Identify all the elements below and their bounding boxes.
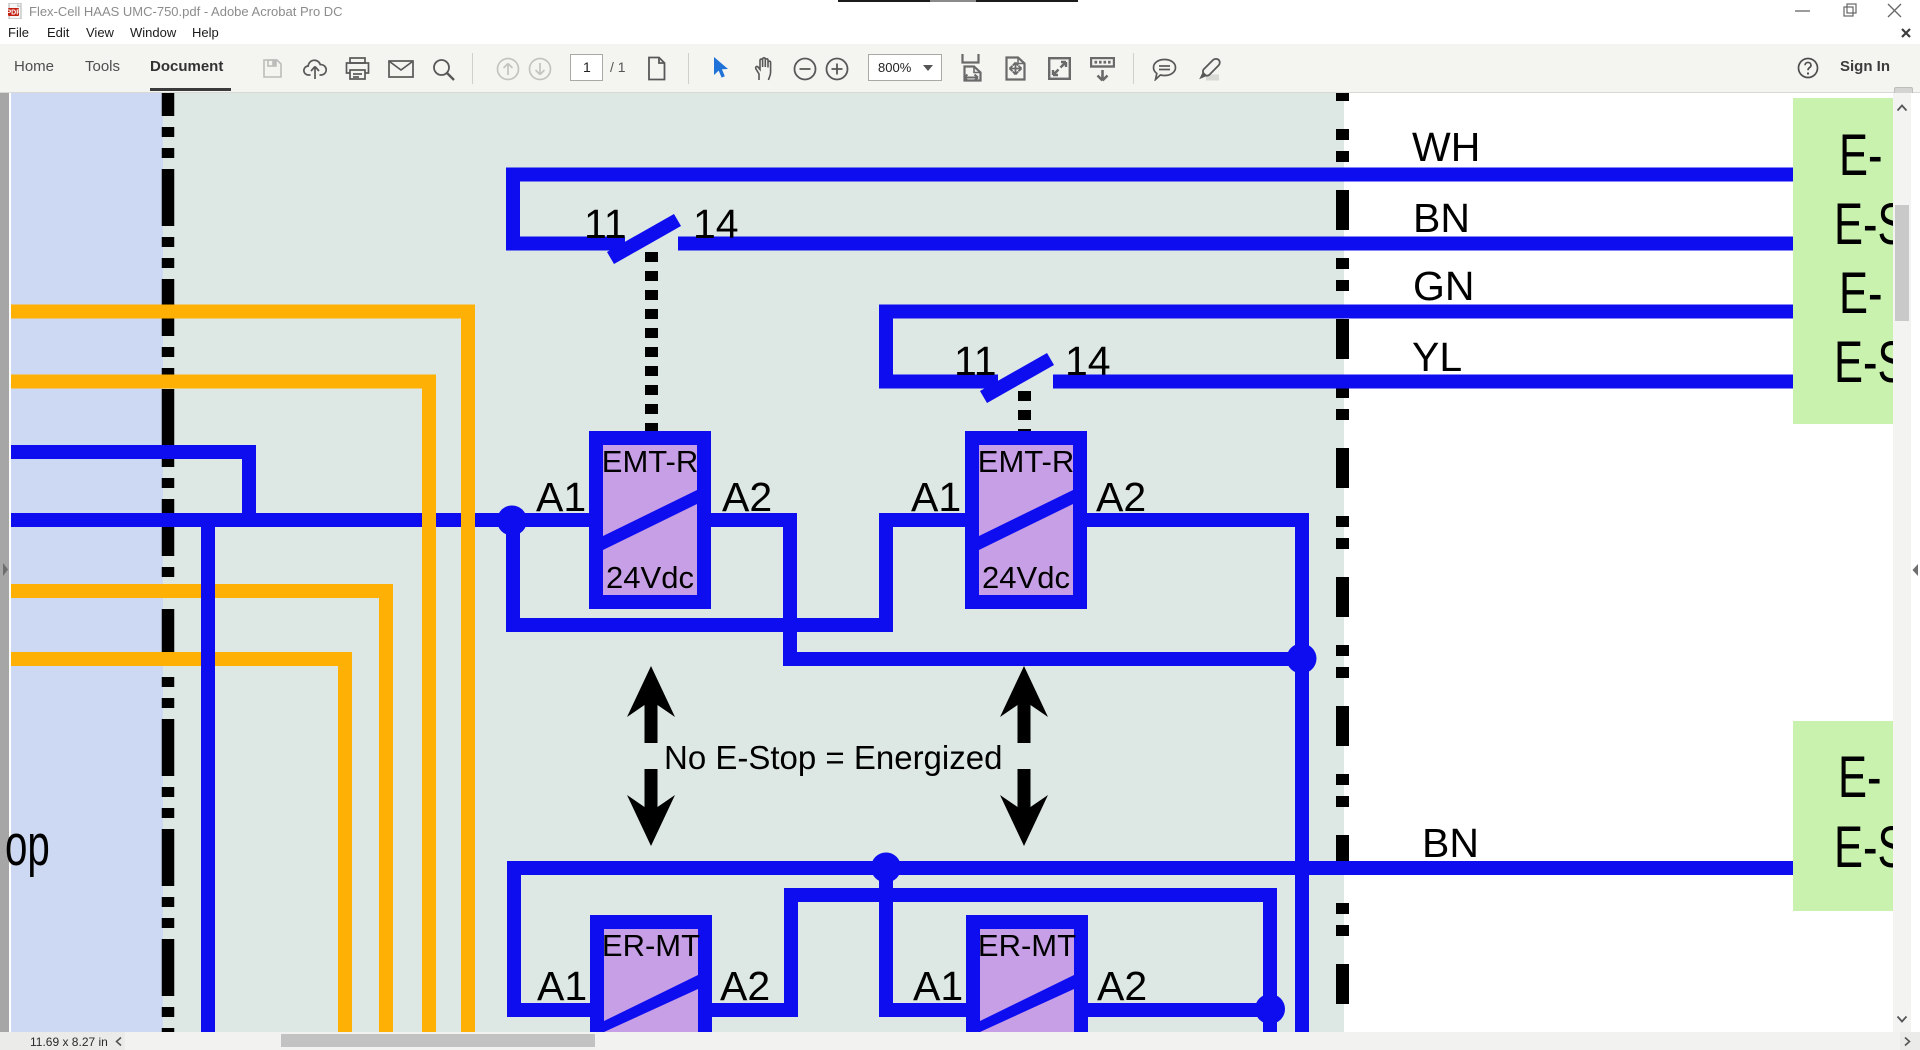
svg-text:24Vdc: 24Vdc	[606, 560, 694, 595]
email	[388, 60, 414, 78]
svg-text:EMT-R: EMT-R	[602, 444, 698, 479]
lower loop mid vertical	[784, 888, 798, 1017]
main rail segment D	[1086, 513, 1309, 527]
help	[1797, 57, 1819, 79]
svg-text:E-: E-	[1839, 123, 1882, 187]
svg-text:A2: A2	[720, 963, 770, 1009]
junction node rail-left	[497, 506, 527, 536]
orange wire 2 vertical	[422, 375, 436, 1033]
fit page icon	[1005, 56, 1026, 81]
dashed boundary line left	[162, 93, 175, 1032]
svg-text:PDF: PDF	[8, 10, 21, 17]
svg-text:E-: E-	[1839, 261, 1882, 325]
svg-text:A1: A1	[537, 963, 587, 1009]
svg-text:op: op	[5, 811, 50, 877]
green terminal box E-STOP top	[1793, 98, 1893, 424]
menu bar	[0, 22, 1920, 44]
relay EMT-R 2 body	[965, 431, 1087, 609]
svg-text:BN: BN	[1422, 820, 1479, 866]
left panel toggle arrow	[3, 563, 8, 576]
green terminal box E-STOP bottom	[1793, 721, 1893, 911]
prev page (disabled)	[496, 57, 520, 81]
orange wire 4 horizontal	[11, 652, 352, 666]
orange wire 3 vertical	[379, 584, 393, 1032]
dotted actuator link right	[1018, 391, 1031, 431]
page icon	[646, 56, 667, 81]
wire WH top	[506, 168, 1793, 182]
svg-text:BN: BN	[1413, 195, 1470, 241]
svg-text:11: 11	[584, 201, 627, 247]
main right vertical	[1295, 513, 1309, 1032]
orange wire 4 vertical	[338, 652, 352, 1032]
green box bottom labels	[1834, 745, 1906, 879]
search	[431, 57, 456, 82]
svg-text:ER-MT: ER-MT	[978, 928, 1076, 963]
next page (disabled)	[528, 57, 552, 81]
comment icon	[1152, 58, 1177, 81]
page number box	[570, 54, 603, 81]
dotted actuator link left	[645, 252, 658, 431]
top edge line of background window	[838, 0, 1078, 2]
upper feed wire left	[11, 445, 256, 459]
svg-text:11: 11	[954, 338, 997, 384]
collapse toolbar button	[1894, 87, 1913, 100]
svg-text:WH: WH	[1412, 124, 1480, 170]
green box top labels	[1834, 123, 1906, 394]
svg-text:A2: A2	[722, 474, 772, 520]
lower return bus top	[784, 888, 1276, 902]
svg-text:14: 14	[1065, 338, 1111, 384]
junction node lower right	[1255, 994, 1285, 1024]
right panel toggle arrow	[1911, 563, 1920, 577]
drop from lower junction	[879, 867, 893, 1017]
ER relay2 A1 wire	[892, 1003, 966, 1017]
contact blade 11-14 (right)	[980, 353, 1054, 403]
ER relay2 A2 wire	[1088, 1003, 1270, 1017]
annotation arrow pair left	[627, 666, 675, 846]
svg-text:A2: A2	[1097, 963, 1147, 1009]
left lavender panel	[11, 93, 163, 1032]
relay ER-MT 2 body	[966, 915, 1088, 1032]
relay ER-MT 1 body	[590, 915, 712, 1032]
highlighter icon	[1194, 56, 1221, 82]
return bus lower	[783, 652, 1308, 666]
wire loop2 left vertical	[879, 305, 893, 389]
lower right loop vertical	[1263, 888, 1277, 1032]
dashed boundary line right	[1336, 93, 1349, 1032]
annotation arrow pair right	[1000, 666, 1048, 846]
svg-text:E-: E-	[1838, 745, 1881, 809]
svg-text:A1: A1	[913, 963, 963, 1009]
svg-text:A1: A1	[536, 474, 586, 520]
cloud upload	[303, 57, 329, 80]
ER relay1 A2 wire	[712, 1003, 796, 1017]
zoom in	[825, 57, 849, 81]
wire loop1 left vertical	[506, 168, 520, 251]
tap vertical to page bottom	[201, 513, 215, 1032]
zoom level box	[868, 54, 942, 81]
wire BN left segment	[506, 237, 625, 251]
wire YL right segment	[1053, 375, 1793, 389]
select cursor (active blue)	[710, 56, 729, 80]
wire YL left segment	[879, 375, 998, 389]
junction node lower rail	[871, 853, 901, 883]
vertical scrollbar	[1893, 93, 1911, 1032]
lower rail BN	[507, 861, 1793, 875]
ER relay1 A1 wire	[507, 1003, 590, 1017]
save (disabled)	[262, 58, 283, 79]
svg-text:No E-Stop = Energized: No E-Stop = Energized	[664, 739, 1002, 776]
lower loop left vertical	[507, 867, 521, 1017]
wire BN right segment	[678, 237, 1793, 251]
svg-text:EMT-R: EMT-R	[978, 444, 1074, 479]
print	[345, 57, 370, 80]
svg-text:ER-MT: ER-MT	[602, 928, 700, 963]
title bar	[0, 0, 1920, 22]
pdf app icon	[8, 3, 24, 19]
full screen icon	[1048, 57, 1071, 80]
schematic cell background	[11, 93, 1344, 1032]
return bus upper	[506, 618, 892, 632]
zoom out	[793, 57, 817, 81]
svg-text:14: 14	[693, 201, 739, 247]
svg-text:24Vdc: 24Vdc	[982, 560, 1070, 595]
svg-text:A2: A2	[1096, 474, 1146, 520]
wire GN	[879, 305, 1793, 319]
upper feed wire drop	[242, 445, 256, 527]
orange wire 2 horizontal	[11, 375, 436, 389]
scrolling pages icon	[961, 54, 983, 82]
toolbar	[0, 44, 1920, 93]
relay EMT-R 1 body	[589, 431, 711, 609]
hand tool	[752, 56, 776, 81]
svg-text:A1: A1	[911, 474, 961, 520]
loop1 lower-left vertical	[506, 520, 520, 632]
main rail segment A	[11, 513, 589, 527]
orange wire 1 vertical	[461, 305, 475, 1033]
status bar	[0, 1032, 1920, 1050]
orange wire 3 horizontal	[11, 584, 393, 598]
junction node return-right	[1287, 644, 1317, 674]
contact blade 11-14 (left)	[607, 214, 681, 264]
read mode icon	[1090, 57, 1115, 82]
svg-text:YL: YL	[1412, 334, 1462, 380]
main rail segment C	[879, 513, 965, 527]
svg-text:GN: GN	[1413, 263, 1475, 309]
relay1 A2 drop vertical	[783, 513, 797, 666]
document area gray edge	[0, 93, 9, 1032]
window controls	[1788, 0, 1920, 22]
main rail segment B	[711, 513, 796, 527]
orange wire 1 horizontal	[11, 305, 475, 319]
riser to relay2 feed	[879, 520, 893, 632]
